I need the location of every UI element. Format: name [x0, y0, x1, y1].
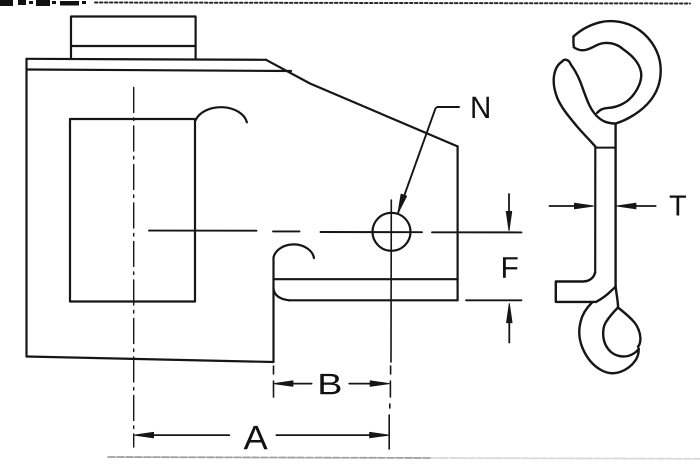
B dimension left arrow: [291, 383, 312, 385]
body right edge: [457, 146, 459, 300]
right view: inner arc of top hook: [574, 43, 641, 113]
right view: free end upper edge of bottom hook: [618, 308, 640, 347]
right view: hook tip face: [572, 37, 575, 48]
hole vertical extension line: [390, 200, 392, 362]
F dimension bottom arrow: [508, 321, 510, 343]
body bottom edge: [27, 357, 274, 363]
ledge top line: [274, 278, 458, 280]
right view: bottom curl outer: [579, 303, 638, 374]
ledge bottom line: [289, 299, 458, 301]
horizontal centerline segment 4 / F upper extension: [432, 231, 522, 233]
B left extension line: [273, 366, 275, 374]
hole N circle: [373, 213, 411, 251]
scan artifact bottom line left part: [108, 457, 432, 458]
label T: [670, 196, 686, 216]
scan artifact bottom line right part: [432, 457, 700, 460]
leader line for N: [398, 107, 459, 213]
B dimension right arrow: [349, 383, 371, 385]
inner rectangle window: [70, 119, 195, 302]
right view: stem left edge: [594, 147, 596, 273]
label F: [503, 257, 518, 278]
right view: lip inner curve: [571, 65, 616, 124]
ledge fillet: [274, 289, 290, 301]
body deck second line: [27, 70, 292, 72]
body top deck line: [27, 59, 267, 60]
label A: [244, 426, 268, 449]
T dimension right arrow: [634, 205, 656, 207]
scan artifact top dotted line: [95, 3, 690, 4]
body left edge: [25, 59, 27, 357]
A dimension right arrow: [276, 434, 370, 436]
A dimension left arrow: [151, 434, 229, 436]
F dimension top arrow: [508, 194, 510, 216]
body chamfer diagonal: [266, 60, 458, 147]
label B: [320, 374, 340, 394]
right view: outer arc of top hook: [574, 21, 661, 123]
boss inner line: [71, 45, 196, 47]
small hook arc on ledge: [274, 244, 315, 258]
right view: lip outer curve: [554, 62, 596, 147]
horizontal centerline segment 2: [273, 230, 300, 232]
body lower right vertical: [272, 258, 274, 363]
horizontal centerline segment 1: [149, 230, 257, 232]
big hook arc on inner rectangle: [195, 107, 247, 122]
right view: stem right edge curving into curl eye: [603, 124, 639, 357]
vertical centerline: [133, 88, 135, 448]
T dimension left arrow: [549, 205, 576, 207]
right view: stem break line: [596, 147, 615, 149]
label N: [472, 97, 489, 118]
scan artifact top blobs: [0, 0, 86, 6]
F lower extension line: [466, 299, 522, 301]
horizontal centerline segment 3 through hole: [321, 231, 423, 233]
right view: lip tip: [562, 60, 571, 65]
boss rectangle on top of body: [71, 17, 196, 60]
leader arrowhead N: [398, 194, 407, 213]
right view: foot outline with crotch curve: [556, 273, 616, 302]
